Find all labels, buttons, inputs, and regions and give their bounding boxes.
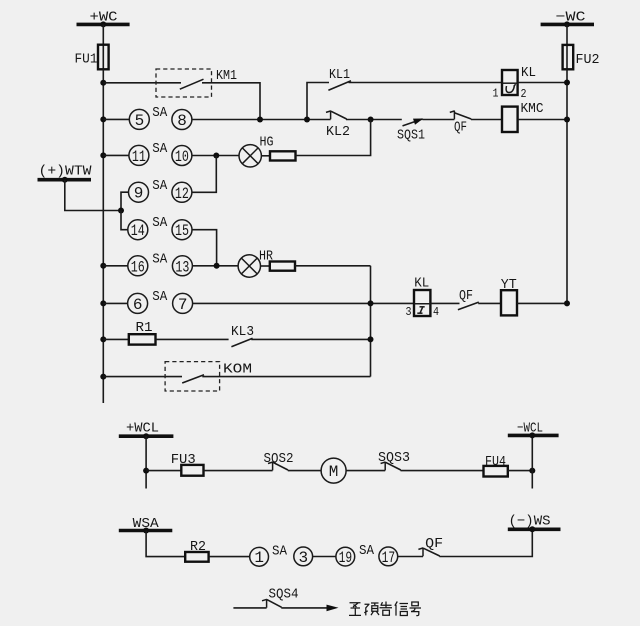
svg-text:KL3: KL3 <box>231 324 254 340</box>
resistor after HR <box>261 262 296 271</box>
svg-text:+WCL: +WCL <box>126 421 159 437</box>
svg-text:14: 14 <box>131 222 145 240</box>
svg-text:KL: KL <box>414 276 429 292</box>
svg-text:4: 4 <box>433 305 439 319</box>
wire KL3 to riser <box>251 338 370 340</box>
wire SQS3 to FU4 <box>401 470 484 472</box>
char 号 <box>410 602 422 616</box>
svg-text:17: 17 <box>382 549 396 567</box>
position switch contact SQS1 (arrow) <box>397 119 425 144</box>
wire QF to KMC <box>471 119 502 121</box>
fuse FU3 <box>146 452 203 476</box>
junction WTW terminal <box>62 177 68 183</box>
char 告 <box>380 602 393 616</box>
svg-text:3: 3 <box>406 305 412 319</box>
switch contact SA 12 <box>172 182 192 202</box>
trip coil YT <box>501 277 517 316</box>
switch contact SA 14 <box>128 220 148 240</box>
wire to SA6 <box>103 302 128 304</box>
wire to SA5 <box>103 118 129 120</box>
position switch contact SQS4 <box>262 587 299 608</box>
switch contact SA 15 <box>172 220 192 240</box>
wire right riser x=370.5 <box>370 266 372 377</box>
wire row A to KM1 <box>103 82 181 84</box>
wire FU3 to SQS2 <box>204 470 273 472</box>
svg-text:SA: SA <box>359 543 375 559</box>
switch contact SA 17 <box>379 547 398 566</box>
position switch contact SQS3 <box>378 450 410 471</box>
wire R2 to SA1 <box>209 556 250 558</box>
node WSA rail <box>119 516 173 532</box>
wire WTW down and right <box>65 180 121 211</box>
svg-text:16: 16 <box>131 258 145 276</box>
svg-text:9: 9 <box>134 185 144 203</box>
junction -WCL branch <box>529 468 535 474</box>
svg-text:7: 7 <box>178 296 188 314</box>
svg-text:KOM: KOM <box>223 362 252 378</box>
junction on -WC <box>564 21 570 27</box>
node +WC rail <box>77 10 130 26</box>
svg-text:15: 15 <box>175 222 189 240</box>
switch contact SA 10 <box>172 146 192 166</box>
svg-text:SA: SA <box>152 289 168 305</box>
switch contact SA 11 <box>129 145 149 165</box>
wire SA13 to lamp <box>192 265 238 267</box>
wire to KOM <box>103 376 182 378</box>
fuse FU1 <box>75 45 109 70</box>
svg-text:3: 3 <box>299 549 309 567</box>
junction left bus row H <box>100 336 106 342</box>
node (-)WS rail <box>508 513 561 529</box>
breaker aux contact QF row G <box>458 288 479 310</box>
junction row F / row E drop <box>214 263 220 269</box>
svg-text:SA: SA <box>152 105 168 121</box>
wire to SA11 <box>103 154 129 156</box>
wire SA7 to KL 3-4 <box>192 302 414 304</box>
svg-text:KM1: KM1 <box>216 68 237 84</box>
wire FU4 to -WCL drop <box>508 470 533 472</box>
breaker aux contact QF row B <box>450 111 471 136</box>
fuse FU2 <box>563 45 600 69</box>
svg-text:SA: SA <box>152 215 168 231</box>
junction (-)WS <box>529 526 535 532</box>
svg-text:KL1: KL1 <box>329 67 350 83</box>
wire right bus <box>566 69 568 303</box>
svg-text:FU2: FU2 <box>576 52 600 68</box>
resistor R2 <box>185 539 208 562</box>
wire KL coil to right bus <box>518 82 567 84</box>
wire left bus top <box>102 24 104 46</box>
switch contact SA 16 <box>128 256 148 276</box>
svg-text:19: 19 <box>339 549 353 567</box>
svg-text:SA: SA <box>152 251 168 267</box>
junction left bus row B <box>100 116 106 122</box>
svg-text:−WC: −WC <box>556 10 586 26</box>
junction riser row H <box>368 336 374 342</box>
wire WTW bracket to SA9 <box>121 192 129 210</box>
junction on +WC <box>100 21 106 27</box>
wire HR resistor to right riser <box>295 265 371 267</box>
junction right bus row B <box>564 117 570 123</box>
fuse FU4 <box>484 454 508 477</box>
wire WTW bracket to SA14 <box>121 211 128 230</box>
switch contact SA 7 <box>173 293 193 313</box>
wire KL1 branch riser <box>307 83 329 120</box>
svg-text:10: 10 <box>175 148 189 166</box>
svg-text:M: M <box>329 463 339 481</box>
junction left bus row C <box>100 152 106 158</box>
svg-text:13: 13 <box>175 258 189 276</box>
svg-text:KL: KL <box>521 65 536 81</box>
wire SQS1 to QF <box>422 119 454 121</box>
switch contact SA 1 <box>250 547 269 566</box>
svg-text:R1: R1 <box>136 320 153 336</box>
relay contact KL2 <box>326 111 350 140</box>
node -WC rail <box>541 10 594 26</box>
resistor R1 <box>103 320 155 344</box>
junction right bus row A <box>564 80 570 86</box>
junction HG branch <box>368 117 374 123</box>
svg-text:SA: SA <box>152 141 168 157</box>
junction KM1 drop <box>257 117 263 123</box>
svg-text:11: 11 <box>132 148 146 166</box>
node +WCL rail <box>119 421 174 437</box>
svg-text:5: 5 <box>135 112 145 130</box>
wire SA17 to QF <box>398 556 423 558</box>
position switch contact SQS2 <box>264 451 294 470</box>
junction -WCL <box>529 432 535 438</box>
wire SA15 down to row F <box>192 230 217 266</box>
junction right bus row G <box>564 300 570 306</box>
svg-text:SQS1: SQS1 <box>397 127 425 143</box>
svg-text:QF: QF <box>425 536 443 552</box>
wire SQS4 to arrow <box>281 607 328 609</box>
wire KL 3-4 to QF <box>430 302 459 304</box>
svg-text:12: 12 <box>175 185 189 203</box>
junction left bus row F <box>100 263 106 269</box>
svg-text:SQS2: SQS2 <box>264 451 294 467</box>
junction row C / row D drop <box>213 153 219 159</box>
svg-text:QF: QF <box>459 288 473 304</box>
switch contact SA 6 <box>128 293 148 313</box>
wire right bus top <box>566 24 568 46</box>
wire motor to SQS3 <box>346 470 385 472</box>
lamp HR <box>238 249 273 278</box>
char 至 <box>349 603 361 616</box>
breaker aux contact QF section3 <box>418 536 443 556</box>
svg-text:SA: SA <box>152 178 168 194</box>
node (+)WTW input <box>38 163 93 179</box>
relay contact KL1 <box>328 67 351 90</box>
wire KMC to right bus <box>518 119 567 121</box>
svg-text:FU1: FU1 <box>75 52 98 68</box>
junction WSA <box>143 528 149 534</box>
junction left bus row I <box>100 374 106 380</box>
switch contact SA 13 <box>172 256 192 276</box>
wire R1 to KL3 <box>156 338 229 340</box>
svg-text:FU3: FU3 <box>171 452 196 468</box>
resistor after HG <box>261 151 295 160</box>
relay U1 KL time-relay coil 1-2 <box>493 65 537 101</box>
junction riser row G <box>368 300 374 306</box>
switch contact SA 9 <box>129 182 149 202</box>
svg-text:SQS4: SQS4 <box>269 587 299 603</box>
svg-text:YT: YT <box>501 277 517 293</box>
wire to SA16 <box>103 265 128 267</box>
wire QF to YT <box>478 302 501 304</box>
node -WCL rail <box>508 421 559 437</box>
svg-text:SQS3: SQS3 <box>378 450 410 466</box>
wire KM1 to corner <box>202 83 260 120</box>
svg-text:1: 1 <box>254 549 264 567</box>
wire SQS2 to motor <box>288 470 321 472</box>
svg-text:QF: QF <box>454 119 467 135</box>
wire KL1 to KL coil <box>349 82 503 84</box>
wire SA12 up to row C <box>192 156 217 193</box>
wire -WCL drop <box>531 435 533 488</box>
wire SA3 to SA19 <box>313 556 336 558</box>
relay contact KL3 <box>231 324 254 347</box>
svg-text:(−)WS: (−)WS <box>509 513 551 529</box>
motor M <box>321 458 346 483</box>
signal contact KOM (dashed enclosure) <box>165 362 252 391</box>
junction +WCL branch <box>143 468 149 474</box>
contactor contact KM1 (dashed enclosure) <box>156 68 237 97</box>
wire +WCL drop <box>145 436 147 488</box>
wire to SQS4 <box>233 607 266 609</box>
switch contact SA 8 <box>172 110 192 130</box>
char 信 <box>395 602 408 616</box>
wire SA8 to KL2 <box>192 119 331 121</box>
svg-text:6: 6 <box>133 296 143 314</box>
junction left bus row G <box>100 300 106 306</box>
junction left bus row A <box>100 80 106 86</box>
relay U1 KL delay contact 3-4 <box>406 276 440 319</box>
wire KOM to riser <box>202 376 370 378</box>
wire left bus <box>102 69 104 403</box>
svg-text:FU4: FU4 <box>485 454 506 470</box>
switch contact SA 19 <box>336 547 355 566</box>
arrow to annunciator <box>327 605 339 612</box>
svg-text:KL2: KL2 <box>326 124 350 140</box>
switch contact SA 5 <box>129 109 149 129</box>
svg-text:8: 8 <box>177 112 187 130</box>
junction WTW bracket <box>118 208 124 214</box>
wire QF to (-)WS riser <box>439 529 532 556</box>
lamp HG <box>239 135 274 167</box>
wire WSA drop <box>146 531 185 557</box>
svg-text:HG: HG <box>260 135 274 151</box>
label 至预告信号 (to pre-alarm signal) <box>349 602 421 616</box>
svg-text:1: 1 <box>493 87 499 101</box>
junction KL1 riser <box>304 117 310 123</box>
wire SA10 to lamp <box>192 155 239 157</box>
svg-text:R2: R2 <box>190 539 206 555</box>
wire KL2 to SQS1 <box>346 119 402 121</box>
svg-text:SA: SA <box>272 544 288 560</box>
svg-text:2: 2 <box>521 87 527 101</box>
wire YT to right bus <box>517 302 567 304</box>
char 预 <box>364 603 379 615</box>
switch contact SA 3 <box>294 547 313 566</box>
svg-text:KMC: KMC <box>521 101 544 117</box>
junction +WCL <box>143 433 149 439</box>
contactor coil KMC <box>502 101 544 132</box>
wire HG resistor to riser <box>296 120 371 156</box>
